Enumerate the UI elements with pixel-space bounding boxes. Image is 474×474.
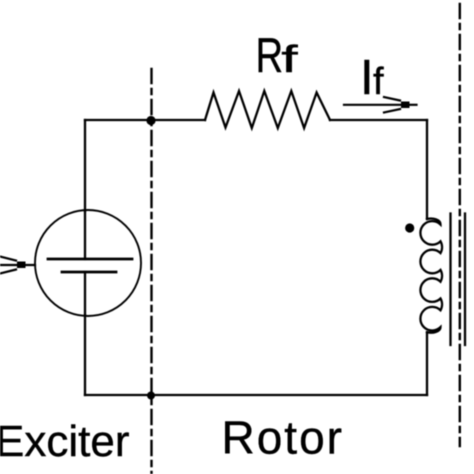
arrow If (current direction, right-pointing with solid head) bbox=[344, 97, 417, 113]
wire bottom horizontal bbox=[85, 394, 427, 396]
inductor L (rotor field winding, 4 loops) bbox=[420, 219, 442, 333]
wire inside source (short plate to bottom terminal) bbox=[84, 272, 86, 315]
polarity dot (winding) bbox=[405, 223, 414, 232]
arrow into exciter (from left edge, solid head) bbox=[0, 257, 35, 274]
svg-text:f: f bbox=[281, 37, 298, 80]
svg-text:I: I bbox=[360, 51, 374, 105]
svg-text:Exciter: Exciter bbox=[0, 417, 129, 466]
resistor Rf bbox=[205, 91, 330, 128]
wire top-right horizontal (resistor to winding) bbox=[330, 119, 427, 121]
svg-text:R: R bbox=[256, 28, 284, 83]
transformer core line 2 bbox=[464, 214, 466, 346]
wire top-left horizontal (exciter output to resistor) bbox=[85, 119, 205, 121]
label Rf bbox=[256, 28, 298, 83]
wire right vertical lower (winding to bottom wire) bbox=[426, 332, 428, 395]
junction node B (bottom, on exciter/rotor boundary) bbox=[147, 392, 155, 400]
wire left vertical upper (top wire to exciter) bbox=[84, 120, 86, 211]
boundary dash-dot line left (Exciter | Rotor) bbox=[150, 69, 152, 474]
wire right vertical upper (to winding) bbox=[426, 120, 428, 219]
label If bbox=[360, 51, 384, 105]
boundary dash-dot line right (Rotor | Stator) bbox=[459, 4, 461, 446]
battery short plate (-) bbox=[62, 271, 116, 274]
wire inside source (top terminal to long plate) bbox=[84, 211, 86, 259]
transformer core line 1 bbox=[449, 214, 451, 346]
junction node A (top, on exciter/rotor boundary) bbox=[146, 116, 155, 125]
voltage source circle (exciter) bbox=[35, 210, 141, 316]
wire left vertical lower (exciter to bottom wire) bbox=[84, 315, 86, 395]
svg-text:Rotor: Rotor bbox=[222, 412, 344, 464]
battery long plate (+) bbox=[48, 258, 132, 261]
svg-text:f: f bbox=[373, 61, 384, 103]
